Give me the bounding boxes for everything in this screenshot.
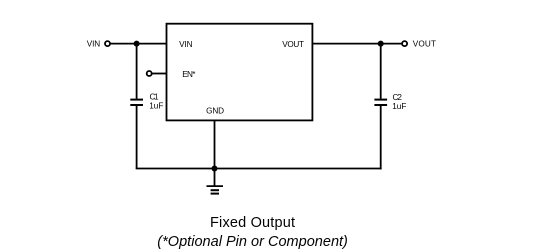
wire U1 VOUT pin to VOUT terminal [312, 43, 401, 45]
svg-text:EN*: EN* [182, 70, 196, 79]
wire node B down to C2 [380, 44, 382, 99]
svg-text:Fixed Output: Fixed Output [210, 215, 295, 231]
wire EN stub to U1 [152, 73, 166, 75]
terminal VIN open circle [105, 41, 110, 46]
regulator IC U1 box [167, 24, 313, 121]
wire C2 down to rail [380, 106, 382, 170]
terminal VOUT open circle [402, 41, 407, 46]
svg-text:C1: C1 [150, 93, 159, 102]
svg-text:VOUT: VOUT [282, 40, 304, 49]
wire C1 down to ground rail [136, 106, 138, 169]
wire stub to ground symbol [214, 169, 216, 186]
svg-text:1uF: 1uF [392, 102, 406, 111]
svg-text:GND: GND [206, 107, 224, 116]
junction node B (VOUT) [378, 41, 384, 47]
ground [207, 186, 224, 194]
capacitor C2 [374, 100, 387, 105]
wire node A down to C1 [136, 44, 138, 99]
svg-text:VOUT: VOUT [413, 40, 436, 49]
terminal EN open circle [147, 71, 152, 76]
svg-text:1uF: 1uF [149, 102, 163, 111]
junction node A (VIN) [134, 41, 140, 47]
wire U1 GND pin down to rail [214, 121, 216, 169]
wire ground rail [136, 168, 382, 170]
svg-text:C2: C2 [393, 93, 403, 102]
svg-text:(*Optional Pin or Component): (*Optional Pin or Component) [157, 234, 348, 250]
svg-text:VIN: VIN [179, 40, 192, 49]
svg-text:VIN: VIN [87, 40, 100, 49]
capacitor C1 [130, 100, 143, 105]
junction node GND [212, 166, 218, 172]
wire VIN terminal to U1 VIN pin [110, 43, 166, 45]
